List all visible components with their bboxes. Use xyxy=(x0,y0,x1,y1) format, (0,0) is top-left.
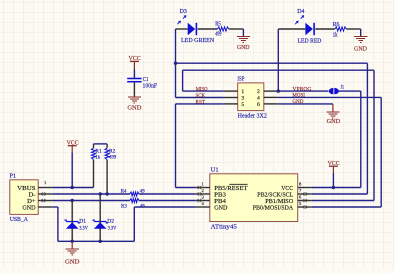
resistor R5 499 xyxy=(217,27,228,31)
resistor R2 499 xyxy=(105,148,109,160)
wire D+ row from P1 to R3 xyxy=(52,200,130,202)
wire J1 to right vertical xyxy=(339,90,361,92)
diode D2 zener 3.3V xyxy=(99,194,101,241)
svg-text:RST: RST xyxy=(196,100,206,106)
ISP pin 4 xyxy=(264,96,278,98)
svg-text:PB0/MOSI/SDA: PB0/MOSI/SDA xyxy=(253,205,294,212)
wire C1 to ground xyxy=(133,82,135,96)
P1 pin 2 D- xyxy=(38,193,52,195)
svg-text:Header 3X2: Header 3X2 xyxy=(238,114,267,120)
svg-text:GND: GND xyxy=(22,205,35,212)
wire D+ row from R3 to U1 PB4 xyxy=(139,200,196,202)
wire SCK row to ISP pin 3 xyxy=(176,97,224,99)
svg-text:3.3V: 3.3V xyxy=(79,225,88,231)
svg-text:GND: GND xyxy=(237,44,250,51)
LED D3 left lead xyxy=(176,28,188,30)
svg-text:2: 2 xyxy=(257,89,260,95)
svg-text:C1: C1 xyxy=(143,77,149,83)
svg-text:R5: R5 xyxy=(215,22,221,28)
ground at R5 xyxy=(237,37,250,43)
LED D4 cathode lead to R6 xyxy=(315,28,335,30)
U1 pin 5 PB0/MOSI/SDA xyxy=(298,206,312,208)
wire into U1 GND pin xyxy=(134,206,196,208)
svg-text:6: 6 xyxy=(257,102,260,108)
svg-text:LED GREEN: LED GREEN xyxy=(181,38,215,44)
resistor R1 1k xyxy=(91,148,95,160)
ground at ISP xyxy=(332,104,334,112)
wire VPROG branch vertical from LED D4 xyxy=(277,29,279,91)
IC U1 ATtiny45 xyxy=(210,174,298,222)
junction VCC / U1 VCC row xyxy=(332,186,335,189)
wire VBUS row to R1 xyxy=(52,187,93,189)
R6 right lead xyxy=(346,28,360,30)
wire R6 to ground xyxy=(360,29,362,36)
svg-text:SCK: SCK xyxy=(196,93,206,99)
P1 pin 3 D+ xyxy=(38,200,52,202)
wire RST row to ISP pin 5 xyxy=(176,103,224,105)
U1 pin 8 VCC xyxy=(298,187,312,189)
wire R1 bottom lead xyxy=(93,160,95,188)
U1 pin 1 PB5/RESET xyxy=(196,187,210,189)
wire MISO row to ISP pin 1 xyxy=(183,90,224,92)
svg-text:R4: R4 xyxy=(121,189,127,195)
wire SCK right vertical down to PB2 xyxy=(366,63,368,194)
wire D- row from P1 to R4 xyxy=(52,193,130,195)
wire SCK into U1 PB2 pin xyxy=(312,193,368,195)
wire MOSI right vertical down to PB0 xyxy=(380,97,382,207)
wire R1-R2 top bar xyxy=(94,143,108,145)
wire GND bottom rail xyxy=(58,240,134,242)
LED D3 xyxy=(188,23,196,35)
svg-text:GND: GND xyxy=(127,105,141,112)
wire VCC stem to U1 VCC row xyxy=(332,166,334,173)
wire GND rail right vertical up xyxy=(133,207,135,241)
ground at USB rail xyxy=(71,241,73,248)
svg-text:499: 499 xyxy=(215,32,221,38)
svg-text:1k: 1k xyxy=(95,155,100,161)
wire R5 to ground xyxy=(242,29,244,36)
connector P1 USB_A xyxy=(10,180,38,215)
U1 pin 3 PB4 xyxy=(196,200,210,202)
junction D2 / D- xyxy=(99,192,102,195)
ISP pin 3 xyxy=(224,97,238,99)
svg-text:GND: GND xyxy=(327,118,341,125)
wire P1 GND pin to corner xyxy=(52,206,58,208)
LED D4 left lead xyxy=(278,28,305,30)
junction SCK rail / D3 branch xyxy=(174,62,177,65)
P1 pin 4 GND xyxy=(38,206,52,208)
junction VPROG / D4 branch xyxy=(277,89,280,92)
svg-text:U1: U1 xyxy=(211,168,219,174)
svg-text:D1: D1 xyxy=(79,219,86,225)
svg-text:J1: J1 xyxy=(340,84,344,90)
U1 pin 4 GND xyxy=(196,206,210,208)
ground at R6 xyxy=(354,37,367,43)
wire ISP GND to ground xyxy=(278,103,333,105)
wire VPROG right vertical down to VCC pin row xyxy=(360,91,362,187)
svg-text:3.3V: 3.3V xyxy=(108,225,117,231)
U1 pin 6 PB1/MISO xyxy=(298,200,312,202)
wire VCC stem down to VBUS row xyxy=(71,146,73,153)
svg-text:5: 5 xyxy=(241,102,244,108)
wire MISO vertical riser xyxy=(182,70,184,91)
capacitor C1 100nF xyxy=(127,78,141,80)
svg-text:R1: R1 xyxy=(95,148,101,154)
svg-text:ATtiny45: ATtiny45 xyxy=(211,225,237,231)
wire RST vertical down to PB5 row xyxy=(175,104,177,188)
resistor R3 49 xyxy=(130,199,139,203)
wire SCK vertical from LED D3 down to ISP SCK row xyxy=(175,29,177,98)
wire MISO into U1 PB1 pin xyxy=(312,200,374,202)
junction D1 / D+ xyxy=(71,199,74,202)
svg-text:GND: GND xyxy=(214,205,227,212)
U1 pin 2 PB3 xyxy=(196,193,210,195)
junction VCC / VBUS xyxy=(71,186,74,189)
wire RST into U1 PB5 pin xyxy=(176,187,196,189)
junction D2 / GND rail xyxy=(99,240,102,243)
svg-text:D3: D3 xyxy=(180,9,187,15)
svg-text:1: 1 xyxy=(241,89,244,95)
wire D- row from R4 to U1 PB3 xyxy=(139,193,196,195)
svg-text:R3: R3 xyxy=(121,203,127,209)
svg-text:4: 4 xyxy=(257,96,260,102)
svg-text:100nF: 100nF xyxy=(143,84,158,90)
ISP pin 5 xyxy=(224,103,238,105)
diode D1 zener 3.3V xyxy=(71,201,73,242)
svg-text:P1: P1 xyxy=(10,173,17,179)
ISP pin 1 xyxy=(224,90,238,92)
junction R2 / D- xyxy=(105,192,108,195)
junction D1 / GND rail xyxy=(71,240,74,243)
LED D3 cathode lead to R5 xyxy=(198,28,218,30)
wire MISO horizontal top rail xyxy=(183,69,374,71)
wire MOSI into U1 PB0 pin xyxy=(312,206,382,208)
R5 right lead xyxy=(229,28,244,30)
wire R2 bottom lead to D- row xyxy=(106,160,108,194)
ISP pin 6 xyxy=(264,103,278,105)
svg-text:3: 3 xyxy=(241,96,244,102)
wire VPROG from ISP pin 2 to J1 xyxy=(278,90,329,92)
svg-text:499: 499 xyxy=(109,155,116,161)
wire into U1 VCC pin xyxy=(312,187,361,189)
wire MISO right vertical down to PB1 xyxy=(373,70,375,200)
wire VCC to C1 xyxy=(133,61,135,69)
connector ISP Header 3X2 xyxy=(238,83,264,111)
wire MOSI from ISP pin 4 to right xyxy=(278,96,381,98)
LED D4 xyxy=(305,23,313,35)
ISP pin 2 xyxy=(264,90,278,92)
svg-text:MISO: MISO xyxy=(196,87,208,93)
svg-text:D4: D4 xyxy=(297,9,304,15)
U1 pin 7 PB2/SCK/SCL xyxy=(298,193,312,195)
svg-text:USB_A: USB_A xyxy=(10,217,29,223)
svg-text:LED RED: LED RED xyxy=(298,39,322,45)
svg-text:GND: GND xyxy=(354,45,367,52)
svg-text:1k: 1k xyxy=(333,33,338,39)
svg-text:ISP: ISP xyxy=(237,77,245,83)
P1 pin 1 VBUS xyxy=(38,187,52,189)
wire GND left vertical xyxy=(57,207,59,241)
svg-text:GND: GND xyxy=(65,258,80,265)
connector J1 xyxy=(329,88,334,94)
wire SCK horizontal top rail xyxy=(176,62,368,64)
svg-text:R2: R2 xyxy=(109,148,115,154)
svg-text:D2: D2 xyxy=(107,219,114,225)
svg-text:R6: R6 xyxy=(333,22,340,28)
ground at C1 xyxy=(128,97,141,103)
resistor R6 1k xyxy=(335,27,346,31)
resistor R4 49 xyxy=(130,192,139,196)
